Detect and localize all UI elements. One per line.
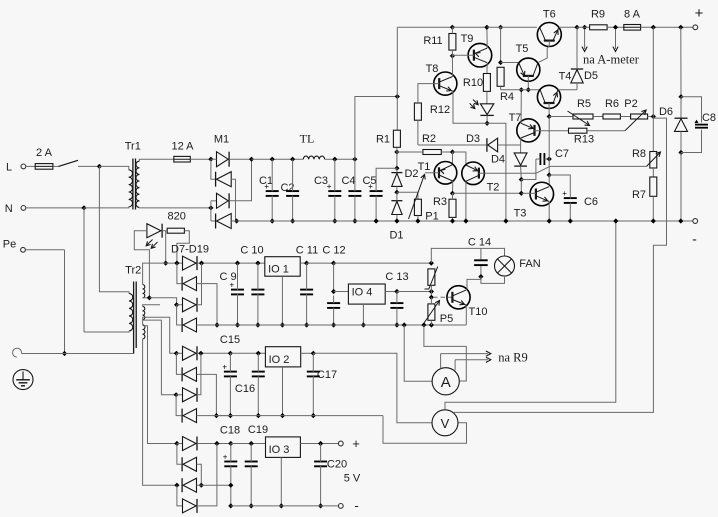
node C15-top (228, 351, 233, 356)
svg-text:D6: D6 (659, 106, 673, 118)
regulator IO1 (265, 257, 300, 277)
wire (177, 305, 182, 325)
node C6-branch junction (547, 172, 552, 177)
svg-text:R11: R11 (423, 35, 442, 47)
capacitor C2 (280, 159, 299, 221)
svg-text:M1: M1 (214, 134, 229, 146)
svg-text:C15: C15 (220, 334, 240, 346)
svg-text:T9: T9 (461, 33, 474, 45)
svg-text:T5: T5 (516, 43, 529, 55)
node C2-bottom (290, 218, 295, 223)
node M1 AC1 (208, 157, 213, 162)
transistor T3 (514, 182, 554, 219)
wire (648, 116, 654, 118)
wire 0V rail 5V section (231, 505, 341, 507)
label na R9 (498, 351, 528, 365)
wire (177, 231, 189, 263)
wire (548, 175, 550, 185)
wire (211, 159, 216, 179)
zener diode D2 (391, 168, 418, 192)
wire (197, 374, 217, 415)
capacitor C12 (322, 245, 345, 326)
node T2-collector-bottom (463, 218, 468, 223)
node LED-cathode junction (485, 121, 490, 126)
svg-text:R13: R13 (574, 134, 594, 146)
transistor T4 (537, 71, 571, 117)
svg-text:R5: R5 (577, 98, 591, 110)
wire (397, 291, 432, 293)
node R8-line-top (651, 25, 656, 30)
svg-text:C19: C19 (248, 424, 268, 436)
wire (487, 123, 506, 221)
zener diode D1 (389, 192, 403, 241)
wire (197, 444, 217, 506)
node Pe-junction (62, 351, 67, 356)
node bridge1 AC-C (174, 302, 179, 307)
svg-text:D7-D19: D7-D19 (171, 244, 209, 256)
svg-text:Pe: Pe (3, 239, 16, 251)
wire (549, 116, 573, 118)
diode M1-D2 (216, 172, 232, 187)
svg-text:+: + (562, 189, 567, 198)
trimmer R5 (568, 98, 594, 126)
wire (301, 352, 314, 354)
regulator IO3 (266, 437, 301, 458)
node D6-line-bottom (678, 218, 683, 223)
wire IO3 mid pin (280, 457, 282, 506)
wire (307, 262, 334, 264)
wire (440, 354, 442, 369)
node C6-bottom (568, 218, 573, 223)
capacitor C15 (220, 334, 240, 416)
wire (430, 297, 432, 304)
wire (559, 26, 577, 28)
terminal + output (693, 5, 704, 30)
wire (197, 415, 231, 417)
svg-text:C 10: C 10 (240, 245, 263, 257)
wire (177, 443, 183, 445)
node bridge3 riser junction (214, 441, 219, 446)
svg-text:R7: R7 (632, 189, 646, 201)
resistor R7 (632, 177, 657, 201)
node bridge1 + junction (199, 261, 204, 266)
arrow to ammeter 2 (613, 29, 618, 52)
wire (607, 26, 624, 28)
wire +rail IO1 (238, 262, 265, 264)
node na-A-meter arrow2 (613, 25, 618, 30)
node C3-bottom (332, 218, 337, 223)
capacitor C8 (681, 97, 716, 153)
diode M1-D1 (217, 152, 230, 167)
wire T3 emitter (548, 201, 550, 221)
svg-text:5 V: 5 V (344, 473, 361, 485)
diode D17 (182, 457, 196, 471)
wire (197, 284, 218, 325)
wire (165, 231, 167, 263)
node T7-emitter junction (519, 87, 524, 92)
svg-text:R4: R4 (500, 91, 514, 103)
wire (177, 304, 183, 306)
terminal 5V + (338, 436, 359, 451)
node L (mains live input) (6, 161, 26, 173)
wire (430, 292, 432, 298)
wire (501, 62, 519, 64)
node C18-top (228, 441, 233, 446)
ground (earth symbol) (13, 370, 33, 390)
svg-text:A: A (441, 374, 451, 391)
node IO3-pin-bottom (279, 503, 284, 508)
node C12-bottom (331, 322, 336, 327)
wire (162, 230, 167, 232)
svg-text:R3: R3 (433, 196, 447, 208)
transistor T9 (452, 33, 491, 67)
transformer Tr2 secondary 2 (143, 305, 177, 354)
node T5-collector junction (526, 87, 531, 92)
node C13-top (394, 289, 399, 294)
node R1-R2 junction (394, 147, 399, 154)
regulator IO2 (265, 347, 300, 367)
wire (197, 262, 238, 264)
node C7-right junction (547, 156, 552, 161)
wire (548, 117, 550, 160)
inductor TL (300, 132, 325, 160)
transistor T5 (516, 43, 540, 90)
node C3-top (332, 157, 337, 162)
wire (548, 159, 550, 175)
wire (396, 97, 398, 131)
node bridge3 AC2 (174, 483, 179, 488)
capacitor C16 (235, 353, 265, 415)
wire (680, 153, 682, 222)
node T1-T2 emitters (450, 149, 455, 154)
wire (210, 201, 212, 221)
svg-text:+: + (368, 182, 373, 191)
resistor R9 (590, 9, 608, 30)
wire T7 emitter (520, 90, 522, 124)
node T3-base junction (519, 191, 524, 196)
node raw-DC riser junction (395, 94, 400, 99)
node C1-bottom (270, 218, 275, 223)
trimmer R8 (632, 148, 661, 168)
wire (355, 97, 397, 160)
node C1-top (270, 157, 275, 162)
svg-text:T1: T1 (418, 161, 431, 173)
wire (13, 348, 65, 357)
node D1-bottom (394, 218, 399, 223)
svg-text:+: + (222, 363, 227, 372)
wire T8 emitter (453, 91, 488, 123)
diode D6 (659, 97, 688, 153)
wire (300, 443, 340, 445)
svg-text:C8: C8 (702, 112, 716, 124)
wire (197, 324, 218, 326)
wire (197, 352, 230, 354)
wire (99, 165, 126, 167)
node T10-base junction (429, 295, 434, 300)
wire (300, 262, 306, 264)
node D4-T2base junction (519, 177, 524, 182)
wire (452, 26, 487, 28)
wire (230, 352, 265, 354)
transistor T8 (418, 63, 457, 103)
node R11-top (450, 25, 455, 34)
capacitor C1 (259, 159, 279, 221)
node C2-top (290, 157, 295, 162)
node P2-D6 junction (651, 114, 656, 119)
wire (431, 248, 504, 263)
resistor R2 (422, 133, 441, 154)
wire T4 emitter (558, 89, 577, 91)
diode D16 (183, 437, 198, 451)
node D6-line-top (678, 25, 683, 30)
wire (454, 118, 667, 412)
wire (26, 207, 84, 209)
resistor R3 (433, 193, 456, 221)
node T9-emitter-top (484, 25, 489, 30)
wire -rail IO2 section (216, 415, 383, 417)
svg-text:P2: P2 (624, 98, 637, 110)
diode D13 (182, 367, 196, 381)
wire T8 collector (451, 56, 453, 77)
node fan-riser junction (429, 261, 434, 266)
capacitor C11 (296, 245, 318, 326)
svg-text:+: + (264, 182, 269, 191)
svg-text:C4: C4 (341, 175, 355, 187)
wire T7 collector (520, 138, 523, 141)
wire (652, 168, 654, 177)
svg-text:C6: C6 (584, 196, 598, 208)
node bridge2 + junction (198, 351, 203, 356)
resistor R11 (423, 34, 456, 51)
wire (211, 158, 252, 160)
fuse 2A (35, 147, 53, 169)
node R11-bottom / T9 base (450, 50, 455, 58)
wire +12V rail to fan (334, 262, 432, 264)
node R4-top (498, 25, 503, 30)
node T1-collector junction (450, 191, 455, 196)
wire (78, 165, 99, 167)
diode D11 (182, 318, 196, 332)
svg-text:FAN: FAN (519, 258, 540, 270)
wire (397, 151, 453, 153)
wire (396, 152, 398, 168)
wire (177, 444, 181, 465)
diode D9 (182, 277, 196, 291)
wire (197, 464, 202, 485)
svg-text:Tr1: Tr1 (125, 141, 141, 153)
node na-A-meter arrow1 (577, 25, 590, 30)
wire (445, 221, 616, 410)
svg-text:IO 1: IO 1 (268, 264, 289, 276)
node C16-top (256, 351, 261, 356)
node LED-line-bottom (503, 218, 508, 223)
arrow na R9 (2) (455, 357, 491, 362)
wire (385, 291, 397, 293)
label 5V (344, 473, 361, 485)
svg-text:na A-meter: na A-meter (583, 53, 640, 67)
wire (176, 353, 181, 374)
wire (252, 158, 304, 160)
node L-junction (97, 164, 102, 169)
svg-text:T8: T8 (426, 63, 439, 75)
node V-line1 top (613, 218, 618, 223)
svg-text:D5: D5 (584, 70, 598, 82)
wire (197, 443, 231, 445)
wire (197, 263, 202, 305)
svg-text:D2: D2 (404, 168, 418, 180)
capacitor C5 (362, 168, 396, 221)
transformer Tr2 secondary 1 (143, 263, 150, 298)
node TH1-C13 junction (429, 285, 434, 294)
wire (64, 250, 66, 354)
meter V (432, 410, 458, 436)
potentiometer P1 (409, 175, 439, 223)
node D2-top (394, 166, 399, 171)
svg-text:C 13: C 13 (385, 271, 408, 283)
diode D10 (183, 298, 198, 312)
wire (397, 192, 418, 199)
resistor R13 (569, 128, 595, 145)
svg-text:V: V (441, 416, 450, 431)
diode D4 (491, 153, 527, 166)
node bridge3 AC1 (174, 441, 179, 446)
diode D5 (zener) (571, 27, 598, 90)
wire (481, 276, 505, 283)
node P1-bottom (415, 218, 420, 223)
node D6-C8 bottom junction (678, 150, 683, 155)
node C17-top (311, 351, 316, 356)
node C19-bottom (249, 503, 254, 508)
transistor T2 (462, 162, 536, 194)
wire (501, 86, 540, 90)
wire (487, 26, 537, 28)
svg-text:C 12: C 12 (322, 245, 345, 257)
svg-text:IO 3: IO 3 (269, 444, 290, 456)
capacitor C13 (385, 271, 408, 325)
diode D8 (183, 256, 198, 270)
wire (520, 166, 523, 179)
diode D12 (183, 346, 198, 360)
node M1 AC2 (208, 205, 213, 210)
wire (453, 152, 466, 165)
fuse 8A (624, 9, 641, 31)
wire T2 collector (465, 181, 467, 221)
node C18-bottom (228, 503, 233, 508)
svg-text:IO 2: IO 2 (269, 354, 290, 366)
node bridge2 AC-G (174, 392, 179, 397)
wire (84, 207, 127, 209)
node A-right tap (421, 322, 426, 327)
arrow na R9 (1) (441, 351, 491, 356)
wire T1 collector (452, 181, 454, 193)
wire (652, 27, 654, 116)
wire (176, 352, 182, 354)
transformer Tr2 secondary 3 (143, 320, 177, 485)
svg-text:Tr2: Tr2 (125, 264, 141, 276)
wire (593, 116, 603, 118)
node C19-top (249, 441, 254, 446)
svg-text:+: + (223, 452, 228, 461)
svg-text:L: L (6, 161, 12, 173)
bridge rectifier M1 label (214, 134, 229, 146)
node C4-bottom (352, 218, 357, 223)
transistor T1 (418, 161, 457, 184)
arrow to ammeter 1 (582, 29, 587, 52)
wire (217, 324, 238, 326)
wire (383, 416, 467, 444)
wire 0V rail (237, 220, 695, 222)
svg-text:D4: D4 (491, 154, 505, 166)
wire (149, 298, 176, 305)
svg-text:T10: T10 (469, 306, 488, 318)
svg-text:TL: TL (300, 132, 315, 146)
svg-text:R6: R6 (605, 98, 619, 110)
fuse 12A (171, 141, 194, 163)
wire (520, 180, 522, 194)
wire (417, 216, 419, 222)
node T4-base junction (547, 114, 552, 119)
resistor R10 (463, 74, 490, 92)
node C14-bottom junction (478, 274, 483, 279)
wire (229, 159, 251, 201)
svg-text:R9: R9 (591, 9, 605, 21)
regulator IO4 (348, 284, 385, 304)
node LED-return junction (147, 295, 152, 300)
diode D3 (466, 133, 498, 152)
wire (521, 173, 536, 179)
wire (176, 395, 181, 416)
wire (231, 220, 236, 222)
LED D (opto indicator) (470, 100, 494, 124)
wire (176, 394, 182, 396)
wire (197, 353, 201, 395)
capacitor C10 (240, 245, 264, 326)
wire (520, 141, 522, 153)
wire (313, 353, 432, 423)
capacitor C3 (314, 159, 341, 221)
transformer Tr2 (84, 166, 141, 353)
wire IO4 mid pin (362, 304, 364, 325)
node IO1-pin-bottom (280, 322, 285, 327)
wire (452, 152, 454, 165)
node C4-top (352, 157, 357, 162)
switch S1 (59, 160, 79, 166)
capacitor C4 (341, 159, 361, 221)
transistor T7 (509, 112, 540, 142)
node P5-bottom (429, 320, 434, 327)
svg-text:na R9: na R9 (498, 351, 528, 365)
diode M1-D3 (217, 193, 230, 208)
node R3-bottom (450, 218, 455, 223)
wire feedback to R8 wiper (536, 166, 647, 173)
svg-text:820: 820 (168, 210, 186, 222)
svg-text:R8: R8 (632, 148, 646, 160)
wire IO1 mid pin (281, 276, 283, 325)
wire (65, 353, 134, 355)
diode D19 (183, 499, 198, 513)
svg-text:P1: P1 (425, 211, 438, 223)
svg-text:T3: T3 (514, 208, 527, 220)
wire (404, 325, 432, 381)
node C11-top (304, 261, 309, 266)
wire (53, 165, 59, 167)
transistor T6 (537, 9, 561, 63)
node N-junction (81, 205, 86, 210)
node C11-bottom (304, 322, 309, 327)
svg-text:T4: T4 (559, 71, 572, 83)
resistor R12 (414, 103, 450, 120)
node C12-IO4 tap (331, 289, 336, 294)
